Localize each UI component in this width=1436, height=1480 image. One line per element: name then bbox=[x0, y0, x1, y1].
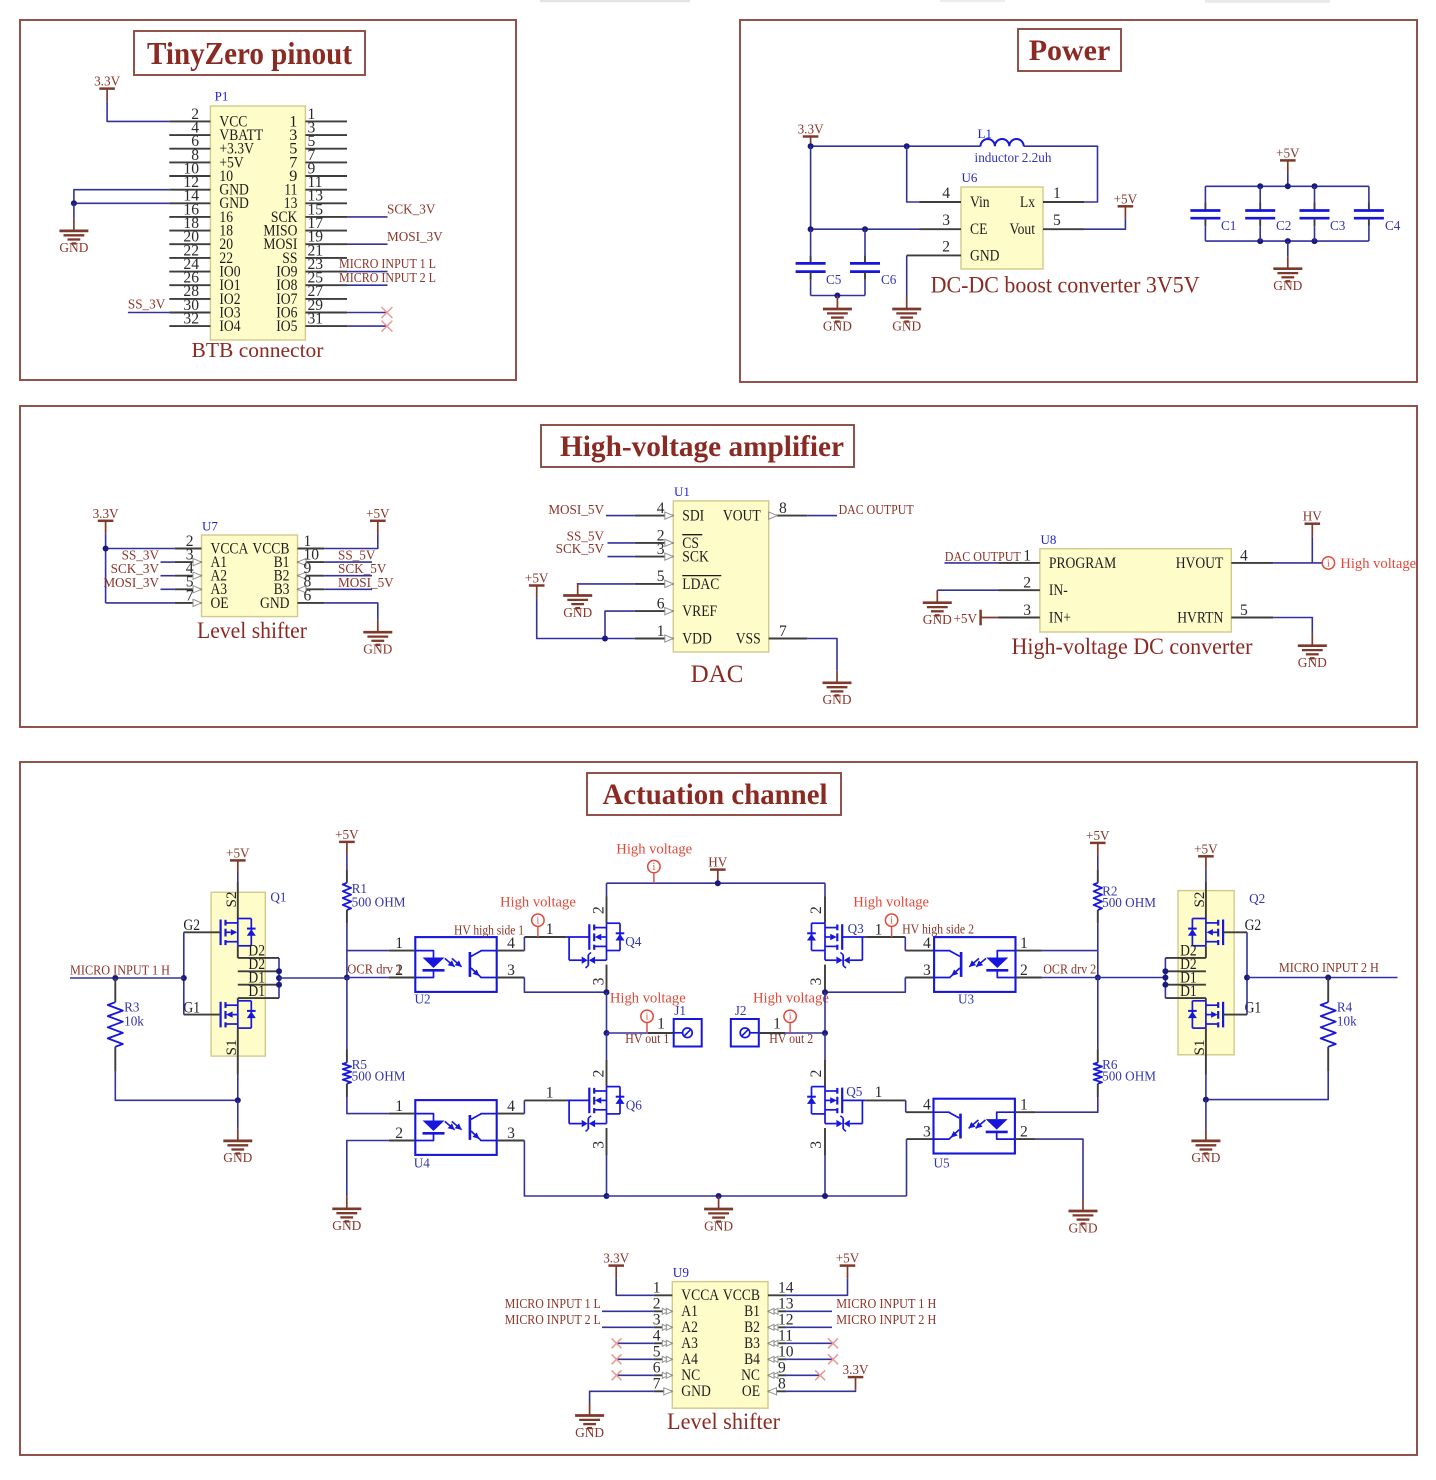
svg-text:3: 3 bbox=[923, 1124, 931, 1141]
svg-text:8: 8 bbox=[778, 1376, 786, 1393]
wire HV bus bbox=[607, 882, 826, 884]
svg-text:U1: U1 bbox=[674, 484, 690, 499]
section frame: Power bbox=[740, 20, 1417, 382]
Q1 body bbox=[211, 892, 265, 1056]
svg-text:3: 3 bbox=[653, 1312, 661, 1329]
Q5 source pin bbox=[824, 1128, 826, 1156]
svg-text:CE: CE bbox=[970, 220, 987, 238]
junction Q1 source gnd bbox=[235, 1097, 241, 1103]
junction OCR drv 1 bbox=[344, 975, 350, 981]
svg-text:4: 4 bbox=[657, 500, 665, 517]
svg-text:2: 2 bbox=[1020, 962, 1028, 979]
svg-text:6: 6 bbox=[657, 596, 665, 613]
transistor Q1 lower NMOS bbox=[220, 1002, 222, 1028]
ground GND left of P1 bbox=[73, 218, 75, 231]
transistor Q6 bbox=[606, 1060, 608, 1087]
svg-text:MICRO INPUT 2 L: MICRO INPUT 2 L bbox=[505, 1312, 601, 1327]
svg-text:High voltage: High voltage bbox=[1340, 556, 1416, 572]
svg-text:2: 2 bbox=[591, 906, 608, 914]
wire cap bank to ground bbox=[1287, 241, 1289, 256]
svg-text:Q4: Q4 bbox=[625, 934, 642, 949]
svg-text:4: 4 bbox=[507, 935, 515, 952]
wire R3 to Q1 S1 node bbox=[115, 1072, 238, 1101]
svg-text:3.3V: 3.3V bbox=[94, 74, 120, 89]
wire Q1 gates to input bbox=[183, 932, 185, 1014]
wire U5 pin3 to gnd bus bbox=[906, 1139, 908, 1196]
svg-text:+5V: +5V bbox=[1114, 191, 1138, 206]
wire +5V to VCCB bbox=[787, 1278, 848, 1295]
svg-text:OE: OE bbox=[742, 1382, 760, 1400]
wire R1 to U2 pin1 and OCR drv 1 bbox=[347, 923, 389, 950]
svg-text:Power: Power bbox=[1029, 34, 1111, 67]
svg-text:HVRTN: HVRTN bbox=[1177, 608, 1223, 626]
wire Q4 to J1 bbox=[607, 1032, 648, 1034]
transistor Q3 bbox=[824, 897, 826, 924]
svg-text:2: 2 bbox=[942, 238, 950, 255]
wire U6 GND pin down bbox=[906, 255, 908, 296]
wire L1 to Lx pin bbox=[1024, 146, 1098, 202]
J2 body bbox=[731, 1019, 759, 1047]
transistor Q1 upper PMOS bbox=[220, 920, 222, 946]
svg-text:31: 31 bbox=[308, 311, 324, 328]
svg-text:7: 7 bbox=[186, 587, 194, 604]
U4 pin stubs bbox=[389, 1113, 416, 1115]
svg-text:3: 3 bbox=[507, 1125, 515, 1142]
wire SS_5V to CS bbox=[608, 542, 635, 544]
wire MICRO INPUT 2 H bbox=[1247, 977, 1398, 979]
svg-text:3: 3 bbox=[591, 1141, 608, 1149]
connector P1 body bbox=[210, 106, 305, 340]
svg-text:GND: GND bbox=[363, 642, 392, 657]
svg-text:8: 8 bbox=[779, 500, 787, 517]
svg-text:OE: OE bbox=[211, 594, 229, 612]
svg-text:4: 4 bbox=[942, 185, 950, 202]
capacitor C6 bbox=[864, 229, 866, 255]
wire U3 pin2 to OCR drv 2 to Q2 bus bbox=[1042, 977, 1098, 979]
power flag 3.3V at P1 bbox=[99, 87, 115, 90]
junction at J2 branch bbox=[822, 1030, 828, 1036]
high voltage flag on bus bbox=[653, 873, 655, 883]
junction R4 bbox=[1325, 975, 1331, 981]
svg-text:G2: G2 bbox=[1245, 916, 1262, 934]
wire R6 to U5 pin1 bbox=[1035, 1097, 1097, 1112]
wire IO5 pin 31 no-connect bbox=[347, 325, 388, 327]
svg-text:GND: GND bbox=[892, 318, 921, 333]
svg-text:DAC OUTPUT: DAC OUTPUT bbox=[839, 502, 914, 517]
power flag 3.3V at OE bbox=[848, 1376, 864, 1379]
svg-text:Actuation channel: Actuation channel bbox=[603, 778, 828, 811]
junction VREF-VDD bbox=[602, 636, 608, 642]
resistor R6 bbox=[1097, 978, 1099, 1050]
title box: TinyZero pinout bbox=[134, 31, 365, 75]
svg-text:High voltage: High voltage bbox=[610, 990, 686, 1006]
svg-text:12: 12 bbox=[778, 1312, 794, 1329]
wire 3.3V rail to L1 bbox=[810, 146, 812, 149]
svg-text:3: 3 bbox=[808, 977, 825, 985]
resistor R1 bbox=[346, 855, 348, 870]
svg-text:C6: C6 bbox=[881, 272, 897, 287]
svg-text:S2: S2 bbox=[1191, 891, 1208, 907]
high voltage flag at Q4 gate bbox=[537, 926, 539, 937]
U9 left pin stubs bbox=[654, 1294, 673, 1296]
U8 body bbox=[1040, 549, 1231, 632]
wire VOUT to DAC OUTPUT bbox=[807, 515, 837, 517]
svg-text:SCK_3V: SCK_3V bbox=[387, 202, 436, 217]
svg-text:S1: S1 bbox=[223, 1039, 240, 1055]
svg-text:C4: C4 bbox=[1385, 218, 1401, 233]
wire MICRO INPUT 1 L to A1 bbox=[602, 1310, 654, 1312]
svg-text:GND: GND bbox=[223, 1150, 252, 1165]
U9 pin arrows bbox=[662, 1308, 668, 1314]
svg-text:2: 2 bbox=[1023, 575, 1031, 592]
ground U6 pin 2 bbox=[906, 297, 908, 310]
svg-text:1: 1 bbox=[1020, 1097, 1028, 1114]
resistor R5 bbox=[346, 978, 348, 1050]
svg-text:MICRO INPUT 2 H: MICRO INPUT 2 H bbox=[1279, 960, 1379, 975]
Q2 S2 pin bbox=[1205, 882, 1207, 919]
title box: Actuation channel bbox=[587, 773, 841, 815]
svg-text:High voltage: High voltage bbox=[500, 895, 576, 911]
svg-text:+5V: +5V bbox=[953, 611, 977, 626]
svg-text:3: 3 bbox=[1023, 602, 1031, 619]
U8 right pin stubs bbox=[1231, 562, 1273, 564]
wire +5V to Q2 S2 bbox=[1205, 869, 1207, 882]
svg-text:1: 1 bbox=[546, 921, 554, 938]
svg-text:1: 1 bbox=[653, 1280, 661, 1297]
svg-text:HVOUT: HVOUT bbox=[1176, 554, 1224, 572]
svg-text:5: 5 bbox=[1240, 602, 1248, 619]
ground at U7 bbox=[377, 620, 379, 633]
wire R4 to Q2 S1 node bbox=[1206, 1072, 1328, 1100]
svg-text:1: 1 bbox=[875, 1084, 883, 1101]
svg-text:SS_3V: SS_3V bbox=[128, 297, 166, 312]
wire B2 to SCK_5V bbox=[324, 575, 372, 577]
svg-text:Lx: Lx bbox=[1020, 193, 1035, 211]
svg-text:R3: R3 bbox=[124, 1000, 140, 1015]
svg-text:GND: GND bbox=[59, 240, 88, 255]
P1 right pin stubs bbox=[305, 120, 347, 122]
Q4 source pin bbox=[606, 965, 608, 993]
svg-text:LDAC: LDAC bbox=[682, 575, 719, 593]
svg-text:1: 1 bbox=[395, 935, 403, 952]
wire DAC OUTPUT to PROGRAM bbox=[945, 562, 999, 564]
junction 3.3V U7 bbox=[103, 546, 109, 552]
cap bank top bus bbox=[1205, 185, 1369, 187]
inductor L1 bbox=[981, 139, 1024, 146]
ground at U9 bbox=[589, 1403, 591, 1416]
U6 pin stubs and numbers bbox=[920, 201, 962, 203]
svg-text:P1: P1 bbox=[215, 89, 229, 104]
svg-text:U7: U7 bbox=[202, 519, 218, 534]
svg-text:GND: GND bbox=[704, 1218, 733, 1233]
Q1 D pins to bus bbox=[238, 957, 279, 959]
svg-text:BTB connector: BTB connector bbox=[192, 338, 324, 362]
wire B1 to SS_5V bbox=[324, 561, 372, 563]
wire bus to OCR drv junction bbox=[279, 977, 347, 979]
junctions Q1 drain bus bbox=[276, 968, 282, 974]
U3 body and internals bbox=[934, 937, 1015, 992]
P1 left pin stubs bbox=[169, 120, 210, 122]
svg-text:i: i bbox=[1327, 558, 1330, 569]
junction Q4 source bbox=[604, 989, 610, 995]
junction Q3 source bbox=[822, 989, 828, 995]
svg-text:MOSI_5V: MOSI_5V bbox=[548, 502, 604, 517]
transistor Q5 bbox=[824, 1060, 826, 1087]
svg-text:GND: GND bbox=[1191, 1150, 1220, 1165]
svg-text:Vout: Vout bbox=[1010, 220, 1036, 238]
ground under C5 C6 bbox=[836, 296, 838, 297]
power flag +5V over capacitor bank bbox=[1280, 159, 1296, 162]
junction Q2 gates bbox=[1244, 975, 1250, 981]
svg-text:14: 14 bbox=[778, 1280, 794, 1297]
Q3 source pin bbox=[824, 965, 826, 993]
svg-text:HV high side 1: HV high side 1 bbox=[454, 922, 524, 937]
svg-text:i: i bbox=[789, 1012, 792, 1023]
svg-text:IO5: IO5 bbox=[276, 317, 297, 335]
Q3 gate wire to U3 pin 4 bbox=[904, 937, 906, 951]
resistor R4 bbox=[1327, 978, 1329, 1003]
J1 body bbox=[674, 1019, 702, 1047]
power flag HV at U8 bbox=[1305, 522, 1321, 525]
svg-text:MOSI_5V: MOSI_5V bbox=[338, 575, 394, 590]
wire Q2 S1 to node bbox=[1205, 1075, 1207, 1100]
svg-text:1: 1 bbox=[1020, 935, 1028, 952]
svg-text:D1: D1 bbox=[1180, 982, 1197, 1000]
svg-text:MICRO INPUT 1 H: MICRO INPUT 1 H bbox=[836, 1296, 936, 1311]
svg-text:Vin: Vin bbox=[970, 193, 990, 211]
wire MICRO INPUT 1 H bbox=[70, 977, 184, 979]
power flag +5V at U1 bbox=[529, 584, 545, 587]
wire U2 pin3 to Q4 source bbox=[524, 978, 606, 993]
ground at U4 pin 2 bbox=[346, 1196, 348, 1209]
cap bank bottom bus bbox=[1205, 240, 1369, 242]
svg-text:IN+: IN+ bbox=[1049, 608, 1071, 626]
svg-text:C1: C1 bbox=[1221, 218, 1236, 233]
wire IN- to ground bbox=[937, 589, 998, 591]
svg-text:1: 1 bbox=[875, 921, 883, 938]
U1 left pin stubs bbox=[635, 515, 674, 517]
svg-text:2: 2 bbox=[808, 1070, 825, 1078]
svg-text:Q1: Q1 bbox=[270, 890, 286, 905]
high voltage flag at Q3 gate bbox=[891, 926, 893, 937]
U6 body bbox=[961, 187, 1043, 269]
svg-text:6: 6 bbox=[653, 1360, 661, 1377]
svg-text:4: 4 bbox=[923, 935, 931, 952]
wire U5 pin2 to ground bbox=[1035, 1139, 1083, 1198]
wire OCR drv 1 to U2 pin2 bbox=[347, 977, 389, 979]
U8 left pin stubs bbox=[998, 562, 1040, 564]
ground under cap bank bbox=[1287, 256, 1289, 269]
wire MOSI_5V to SDI bbox=[606, 515, 635, 517]
wire to ground Q1 bbox=[237, 1100, 239, 1128]
wire bus to Q3 drain bbox=[824, 883, 826, 896]
svg-text:1: 1 bbox=[395, 1098, 403, 1115]
capacitor C2 bbox=[1259, 186, 1261, 202]
svg-text:+5V: +5V bbox=[1086, 828, 1110, 843]
svg-text:3.3V: 3.3V bbox=[93, 506, 119, 521]
svg-text:+5V: +5V bbox=[226, 845, 250, 860]
wire J row to Q6 drain bbox=[606, 1033, 608, 1060]
wire U4 pin2 to ground bbox=[347, 1141, 389, 1197]
svg-text:3.3V: 3.3V bbox=[603, 1251, 629, 1266]
U9 right pin stubs bbox=[768, 1294, 787, 1296]
power flag +5V at Vout bbox=[1118, 205, 1134, 208]
svg-text:+5V: +5V bbox=[836, 1251, 860, 1266]
svg-text:3: 3 bbox=[507, 962, 515, 979]
svg-text:500 OHM: 500 OHM bbox=[1102, 895, 1156, 910]
wire R5 to U4 pin1 bbox=[347, 1097, 389, 1114]
transistor Q2 lower NMOS bbox=[1222, 1002, 1224, 1028]
U5 right pin stubs bbox=[1015, 1111, 1036, 1113]
Q2 D pins to bus bbox=[1165, 957, 1206, 959]
section frame: High-voltage amplifier bbox=[20, 406, 1417, 727]
svg-text:7: 7 bbox=[653, 1376, 661, 1393]
svg-text:4: 4 bbox=[923, 1097, 931, 1114]
svg-text:3: 3 bbox=[808, 1141, 825, 1149]
svg-text:GND: GND bbox=[681, 1382, 711, 1400]
svg-text:VSS: VSS bbox=[736, 629, 761, 647]
power flag 3.3V in Power section bbox=[803, 135, 819, 138]
wire U4 pin3 to gnd bus bbox=[524, 1141, 606, 1197]
svg-text:R4: R4 bbox=[1337, 1000, 1353, 1015]
wire +5V to VDD bbox=[537, 598, 635, 638]
svg-text:High voltage: High voltage bbox=[753, 990, 829, 1006]
wires A3 A4 NC no-connect bbox=[617, 1342, 654, 1344]
svg-text:TinyZero pinout: TinyZero pinout bbox=[147, 35, 352, 71]
svg-text:500 OHM: 500 OHM bbox=[352, 1068, 406, 1083]
svg-text:SCK_5V: SCK_5V bbox=[556, 541, 605, 556]
section frame: Actuation channel bbox=[20, 762, 1417, 1455]
wire VSS to ground bbox=[807, 639, 837, 671]
U2 pin stubs bbox=[389, 950, 416, 952]
wire IO9 pin 25 bbox=[347, 284, 388, 286]
no-connect X on pin 31 bbox=[381, 321, 392, 332]
wire MOSI_3V to A3 bbox=[161, 588, 175, 590]
svg-text:VDD: VDD bbox=[682, 629, 712, 647]
U1 right pin stubs bbox=[769, 515, 808, 517]
wire HVOUT to HV bbox=[1311, 536, 1313, 563]
wire B3 to MOSI_5V bbox=[324, 588, 372, 590]
svg-text:3: 3 bbox=[591, 977, 608, 985]
svg-text:GND: GND bbox=[823, 318, 852, 333]
power flag +5V at R2 bbox=[1090, 842, 1106, 845]
wire Q2 gates riser bbox=[1246, 932, 1248, 1014]
wire Q1 drain bus bbox=[278, 958, 280, 998]
no-connect X on pin 29 bbox=[381, 307, 392, 318]
svg-text:G1: G1 bbox=[183, 998, 200, 1016]
svg-text:7: 7 bbox=[779, 623, 787, 640]
svg-text:3: 3 bbox=[657, 541, 665, 558]
wires B3 B4 no-connect bbox=[787, 1342, 833, 1344]
svg-text:MICRO INPUT 1 H: MICRO INPUT 1 H bbox=[70, 962, 170, 977]
svg-text:C5: C5 bbox=[826, 272, 842, 287]
ground at IN- bbox=[936, 590, 938, 603]
svg-text:4: 4 bbox=[507, 1098, 515, 1115]
svg-text:10k: 10k bbox=[124, 1013, 144, 1028]
svg-text:3.3V: 3.3V bbox=[798, 122, 824, 137]
svg-text:MICRO INPUT 1 L: MICRO INPUT 1 L bbox=[505, 1296, 601, 1311]
svg-text:+5V: +5V bbox=[1194, 841, 1218, 856]
svg-text:GND: GND bbox=[970, 246, 1000, 264]
svg-text:C3: C3 bbox=[1330, 218, 1346, 233]
power flag +5V at IN+ (sideways) bbox=[979, 610, 982, 626]
U7 left pin stubs bbox=[175, 548, 202, 550]
Q2 upper drain elbow bbox=[1205, 946, 1207, 958]
power flag 3.3V at U7 bbox=[98, 520, 114, 523]
wire R2 column to OCR drv 2 bbox=[1097, 951, 1099, 978]
wire Q2 drain bus bbox=[1164, 958, 1166, 998]
wire MICRO INPUT 2 L to A2 bbox=[602, 1326, 654, 1328]
wire Q4 source to J row bbox=[606, 992, 608, 1033]
svg-text:C2: C2 bbox=[1276, 218, 1291, 233]
svg-text:500 OHM: 500 OHM bbox=[352, 895, 406, 910]
U7 right pin arrows bbox=[298, 559, 307, 566]
wire 3.3V to VCCA and OE bbox=[105, 533, 107, 548]
svg-text:1: 1 bbox=[657, 623, 665, 640]
wire Q3 source to J2 row bbox=[824, 992, 826, 1033]
svg-text:1: 1 bbox=[1053, 185, 1061, 202]
wire B1 to MICRO INPUT 1 H bbox=[787, 1310, 832, 1312]
junction at Vin branch bbox=[904, 143, 910, 149]
Q4 gate wire from U2 pin 4 bbox=[523, 937, 525, 951]
svg-text:Level shifter: Level shifter bbox=[197, 618, 307, 644]
junction gnd bus center bbox=[716, 1193, 722, 1199]
svg-text:Level shifter: Level shifter bbox=[667, 1409, 780, 1435]
svg-text:VOUT: VOUT bbox=[723, 507, 761, 525]
junction R3 bbox=[112, 975, 118, 981]
svg-text:High-voltage DC converter: High-voltage DC converter bbox=[1012, 634, 1253, 659]
wire B2 to MICRO INPUT 2 H bbox=[787, 1326, 832, 1328]
svg-text:Q6: Q6 bbox=[626, 1097, 643, 1112]
svg-text:High voltage: High voltage bbox=[853, 895, 929, 911]
U3 right pin stubs bbox=[1016, 950, 1042, 952]
title box: Power bbox=[1018, 29, 1121, 71]
svg-text:+5V: +5V bbox=[1276, 145, 1300, 160]
svg-text:HV: HV bbox=[1303, 509, 1323, 524]
svg-text:OCR drv 1: OCR drv 1 bbox=[347, 962, 402, 977]
svg-text:Q3: Q3 bbox=[848, 921, 865, 936]
wire SS_3V to A1 bbox=[161, 561, 175, 563]
svg-text:i: i bbox=[646, 1012, 649, 1023]
power flag HV actuation bbox=[710, 868, 726, 871]
junction at J1 branch bbox=[604, 1030, 610, 1036]
svg-text:3: 3 bbox=[923, 962, 931, 979]
junctions cap bank bottom bbox=[1257, 238, 1263, 244]
ground at bus center bbox=[718, 1195, 720, 1198]
svg-text:Q5: Q5 bbox=[846, 1084, 863, 1099]
svg-text:IN-: IN- bbox=[1049, 581, 1068, 599]
svg-text:13: 13 bbox=[778, 1296, 794, 1313]
junctions Q2 drain bus bbox=[1162, 968, 1168, 974]
svg-text:High voltage: High voltage bbox=[616, 842, 692, 858]
svg-text:GND: GND bbox=[822, 692, 851, 707]
svg-text:10k: 10k bbox=[1337, 1013, 1357, 1028]
Q2 S1 pin bbox=[1205, 1028, 1207, 1074]
power flag +5V at U7 bbox=[370, 520, 386, 523]
svg-text:IO4: IO4 bbox=[219, 317, 240, 335]
junction Q2 source gnd bbox=[1203, 1097, 1209, 1103]
wire SCK pin 15 bbox=[347, 216, 388, 218]
svg-text:GND: GND bbox=[260, 594, 290, 612]
ground at Q2 bbox=[1205, 1128, 1207, 1141]
U5 body and internals bbox=[934, 1099, 1015, 1154]
svg-text:10: 10 bbox=[778, 1344, 794, 1361]
wire U7 GND pin bbox=[324, 603, 378, 620]
svg-text:3: 3 bbox=[942, 212, 950, 229]
wire Q3 to J2 bbox=[785, 1032, 825, 1034]
wire +5V to cap bank bbox=[1287, 173, 1289, 186]
svg-text:MICRO INPUT 2 H: MICRO INPUT 2 H bbox=[836, 1312, 936, 1327]
